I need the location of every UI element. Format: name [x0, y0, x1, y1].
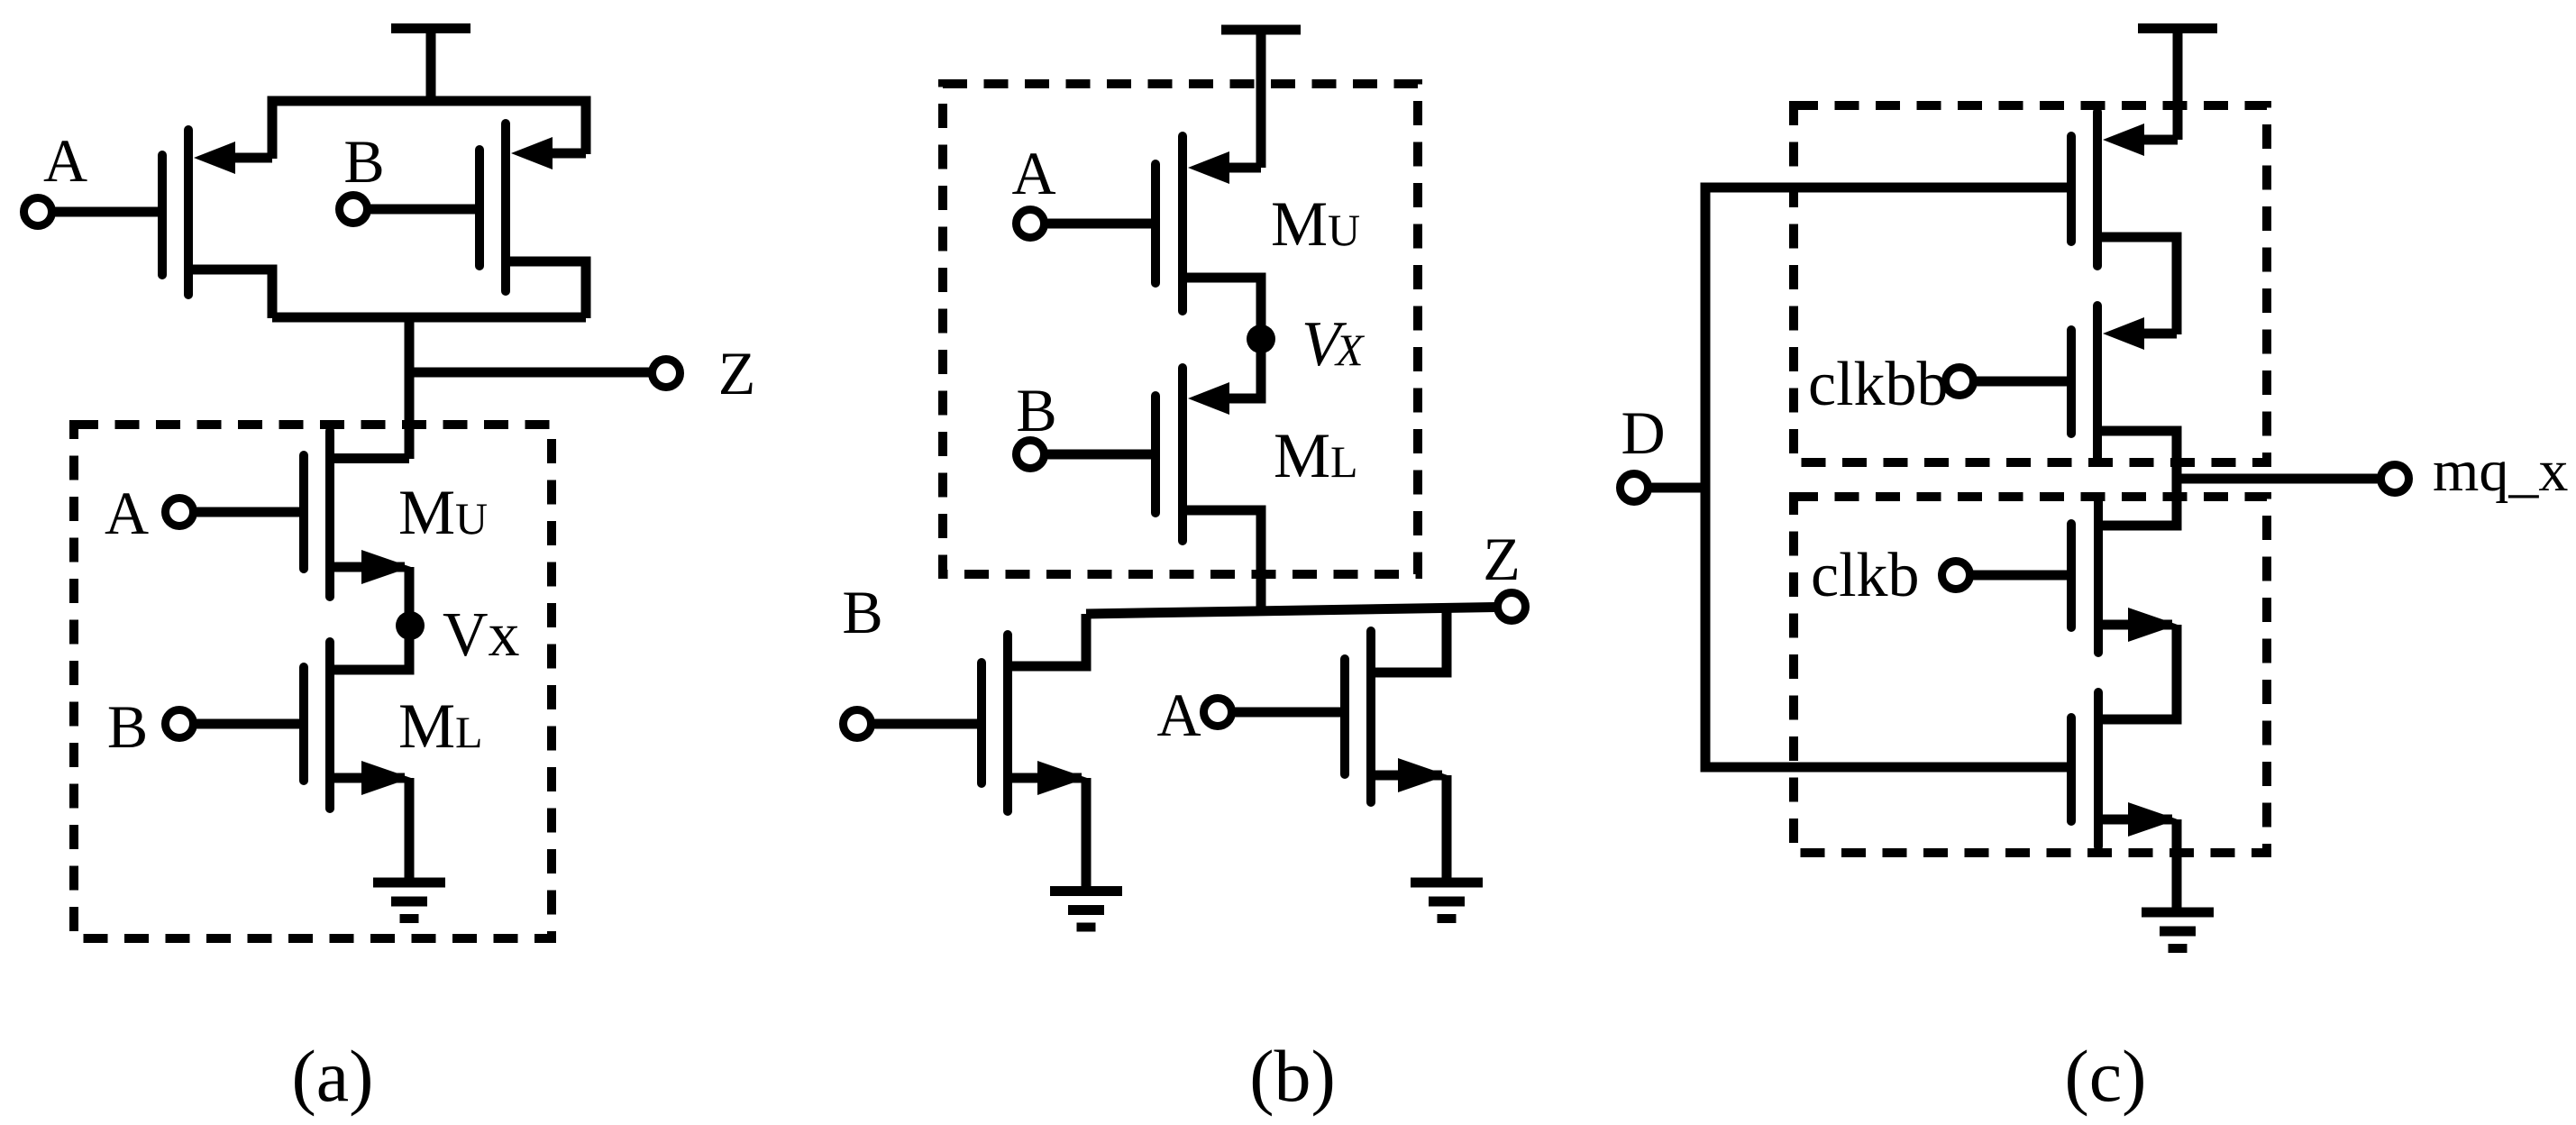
svg-text:L: L: [1330, 436, 1358, 487]
svg-text:mq_x: mq_x: [2433, 438, 2568, 504]
ground (c): [2142, 912, 2214, 948]
label MU (b): [1271, 189, 1360, 260]
dashed box pull-down network (a): [74, 425, 552, 938]
power VDD (b): [1221, 30, 1301, 168]
output terminal mq_x (c): [2381, 465, 2409, 493]
svg-text:Z: Z: [718, 339, 756, 407]
ground right (b): [1411, 883, 1483, 919]
transistor N2 NMOS input D (c): [2071, 692, 2178, 908]
transistor P1 PMOS input D (c): [2071, 112, 2178, 334]
output terminal Z (a): [653, 360, 681, 388]
label Z (b): [1483, 525, 1521, 593]
svg-text:Vx: Vx: [443, 600, 520, 670]
transistor P2 PMOS input clkbb (c): [2071, 306, 2177, 480]
label ML (a): [398, 691, 483, 762]
transistor N2 NMOS input A (b): [1345, 610, 1448, 883]
caption (a): [291, 1035, 373, 1117]
wire drain rail and output stem (a): [272, 317, 586, 459]
label B at ML (a): [107, 692, 148, 761]
ground (a): [373, 883, 445, 919]
label B bottom (b): [842, 578, 882, 646]
svg-text:clkbb: clkbb: [1808, 350, 1949, 419]
label A bottom (b): [1156, 681, 1201, 749]
caption (b): [1249, 1035, 1336, 1117]
input terminal clkbb (c): [1946, 368, 2072, 396]
label mq_x (c): [2433, 438, 2568, 504]
input terminal B at ML (a): [166, 710, 305, 738]
svg-text:X: X: [1334, 325, 1366, 375]
svg-text:A: A: [1011, 139, 1055, 207]
transistor N1 NMOS input B (b): [982, 614, 1087, 892]
svg-text:M: M: [1271, 189, 1328, 260]
label A (a): [43, 126, 87, 195]
node VX dot (b): [1247, 325, 1275, 353]
label clkb (c): [1811, 541, 1920, 610]
svg-text:U: U: [455, 493, 488, 544]
svg-text:Z: Z: [1483, 525, 1521, 593]
wire VDD rail (a): [272, 101, 586, 159]
input terminal B bottom (b): [844, 710, 982, 738]
label MU (a): [398, 478, 488, 548]
label Z (a): [718, 339, 756, 407]
label ML (b): [1274, 421, 1358, 491]
svg-text:B: B: [1016, 376, 1056, 444]
dashed box series stack (b): [943, 84, 1418, 574]
label A (b): [1011, 139, 1055, 207]
transistor MU PMOS input A (b): [1156, 136, 1261, 326]
input terminal A bottom (b): [1204, 699, 1346, 727]
wire D net (c): [1705, 187, 2071, 767]
label B (a): [343, 127, 384, 196]
transistor N1 NMOS input clkb (c): [2071, 479, 2178, 719]
wire output rail (b): [1086, 608, 1497, 615]
svg-text:(b): (b): [1249, 1035, 1336, 1117]
power VDD (c): [2138, 29, 2217, 141]
svg-text:M: M: [1274, 421, 1330, 491]
label A at MU (a): [105, 479, 149, 547]
ground left (b): [1050, 892, 1122, 928]
transistor P2 PMOS input B (a): [480, 123, 586, 318]
node VX dot (a): [396, 611, 425, 640]
svg-text:clkb: clkb: [1811, 541, 1920, 610]
svg-text:(c): (c): [2064, 1035, 2146, 1117]
svg-text:D: D: [1621, 398, 1665, 467]
svg-text:A: A: [1156, 681, 1201, 749]
transistor P1 PMOS input A (a): [162, 130, 272, 318]
svg-text:U: U: [1328, 205, 1360, 255]
svg-text:B: B: [343, 127, 384, 196]
wire to output Z (a): [409, 368, 653, 378]
svg-text:B: B: [842, 578, 882, 646]
transistor ML PMOS input B (b): [1156, 339, 1261, 614]
label VX (a): [443, 600, 520, 670]
svg-text:L: L: [455, 707, 483, 757]
label B (b): [1016, 376, 1056, 444]
input terminal B (a): [340, 196, 480, 224]
transistor ML NMOS input B (a): [304, 626, 411, 879]
wire output mq_x (c): [2177, 474, 2381, 484]
svg-text:M: M: [398, 691, 455, 762]
label clkbb (c): [1808, 350, 1949, 419]
power VDD (a): [391, 29, 470, 102]
input terminal A at MU (a): [166, 498, 305, 526]
input terminal A (b): [1017, 210, 1156, 238]
input terminal B (b): [1017, 441, 1156, 469]
input terminal clkb (c): [1942, 562, 2072, 590]
caption (c): [2064, 1035, 2146, 1117]
dashed box clkbb stage (c): [1794, 105, 2267, 462]
svg-text:B: B: [107, 692, 148, 761]
dashed box clkb stage (c): [1794, 497, 2267, 853]
svg-text:M: M: [398, 478, 455, 548]
output terminal Z (b): [1498, 593, 1526, 621]
svg-text:A: A: [43, 126, 87, 195]
svg-text:(a): (a): [291, 1035, 373, 1117]
svg-text:A: A: [105, 479, 149, 547]
input terminal D (c): [1621, 474, 1706, 502]
input terminal A (a): [24, 198, 163, 226]
transistor MU NMOS input A (a): [304, 431, 411, 626]
label VX (b): [1302, 309, 1366, 380]
label D (c): [1621, 398, 1665, 467]
